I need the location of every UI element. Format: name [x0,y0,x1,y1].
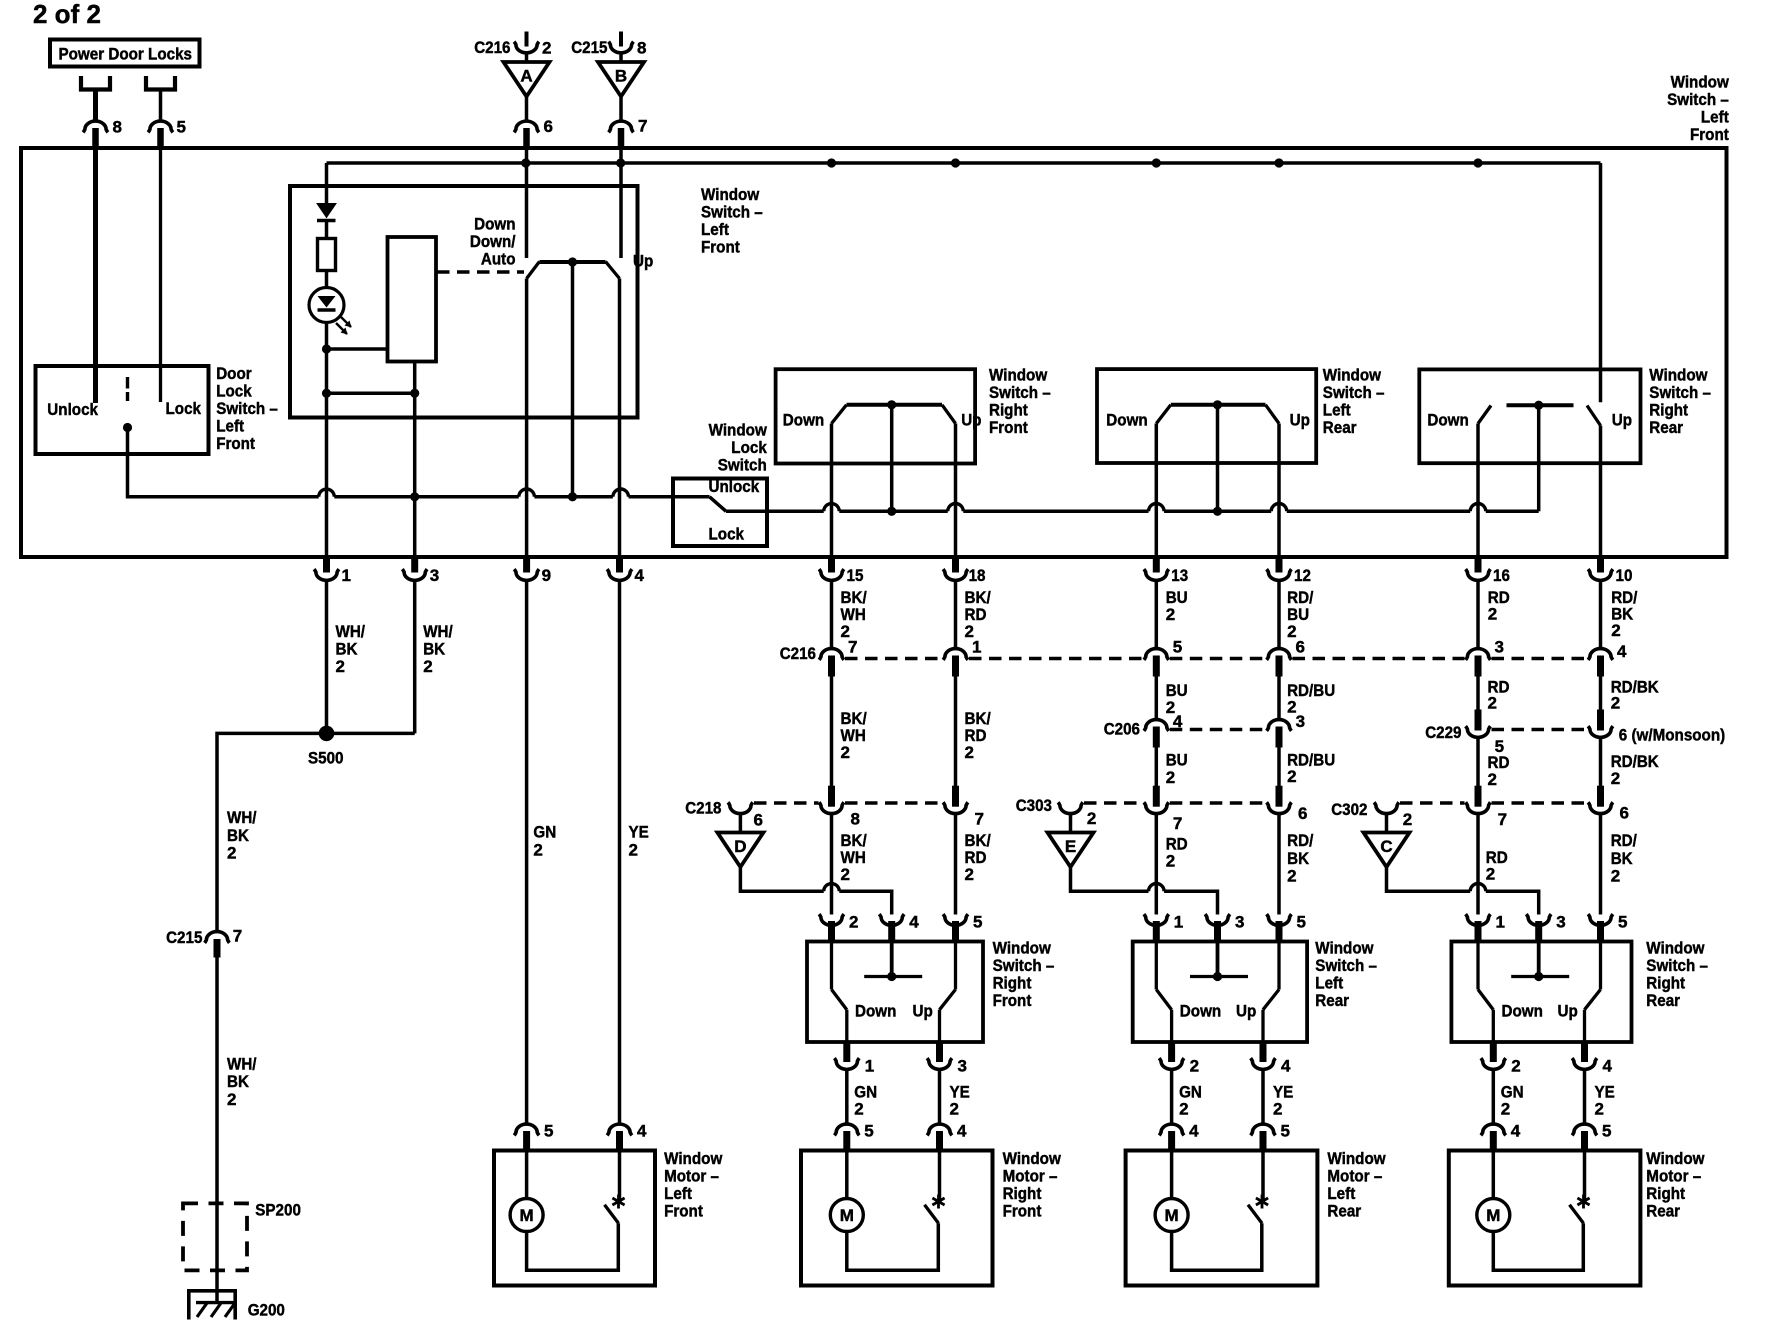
wire S500 to C215 [217,733,327,930]
wire motor feed left (window motor left front) [525,1152,529,1199]
svg-text:2: 2 [336,657,345,676]
dashed connector line C303 a [1084,801,1143,804]
wire motor feed right (window motor right rear) [1583,1152,1587,1200]
svg-text:Window: Window [1315,939,1374,958]
svg-text:Rear: Rear [1646,1202,1680,1221]
wire YE (right rear) [1583,1070,1587,1125]
wire C206-3 to C303-6 [1277,748,1281,787]
connector C216 pin 1 [943,638,981,677]
svg-text:2: 2 [1166,852,1175,871]
wire C218-6 to triangle D [739,814,743,833]
svg-text:C206: C206 [1104,720,1140,739]
wire label RD/BK 2 (RR c) [1611,752,1660,788]
svg-text:Down: Down [1427,410,1468,429]
ground G200 [189,1291,235,1320]
wire RF center tap to lock bus [890,405,894,512]
svg-text:2: 2 [1087,809,1096,828]
junction bridge center (RF) [887,400,896,409]
wire pin 10 to C216-4 [1599,581,1603,649]
dashed connector line C303 b [1170,801,1266,804]
crossover hump at left rear Down [1149,503,1165,511]
pin 16 connector (right rear) [1466,556,1510,585]
svg-text:6: 6 [1296,638,1305,657]
motor M (window motor right rear) [1477,1199,1510,1232]
svg-text:2: 2 [841,865,850,884]
wire C216-5 to C206-4 [1155,677,1159,722]
wire label RD/BK 2 (RR a) [1611,588,1637,640]
window switch right front (lower) pin 2 connector [819,913,858,943]
label window motor right front [1003,1149,1062,1221]
wire LR Up output to pin 12 [1277,424,1281,558]
wire C218-8 to RF switch pin 2 [830,814,834,915]
svg-text:Window: Window [1671,73,1730,92]
wire C229-5 to C302-7 [1476,738,1480,787]
right front switch contacts [832,405,956,424]
dashed control line Down/Auto [437,270,524,273]
junction bus / left rear center tap [1213,507,1222,516]
pin 13 connector (left rear) [1144,556,1188,585]
svg-text:Front: Front [664,1202,703,1221]
window motor left front box [494,1151,655,1286]
svg-text:BK: BK [227,1072,250,1091]
door lock switch blade [126,377,129,401]
wire RR Down output to pin 16 [1476,424,1480,558]
junction lock bus / center tap [568,492,577,501]
svg-text:2: 2 [1611,769,1620,788]
svg-text:2: 2 [1611,694,1620,713]
svg-text:1: 1 [342,566,351,585]
wire triangle B to pin 7 [619,97,623,122]
junction feed bus / pin6 wire [521,158,530,167]
svg-text:2: 2 [1511,1057,1520,1076]
connector C302 pin 6 [1588,786,1629,823]
svg-text:2 of 2: 2 of 2 [33,0,101,29]
svg-text:WH/: WH/ [336,622,366,641]
wire label WH/BK 2 (pin 3) [423,622,453,676]
pin 12 connector (left rear) [1267,556,1311,585]
wire motor return (window motor right front) [847,1223,939,1270]
wire junction to junction 2 [325,349,329,393]
junction bus / right front center tap [887,507,896,516]
label window switch right front (lower) [993,939,1055,1011]
svg-text:4: 4 [1511,1122,1521,1141]
wire junction to module [327,347,388,351]
dashed connector line C218 a [754,801,819,804]
svg-text:15: 15 [847,566,864,585]
svg-text:6: 6 [1620,803,1629,822]
wire label RD 2 (RR a) [1488,588,1510,624]
label Window Switch Right Rear (upper) [1649,366,1711,438]
wire left front Up output to pin 4 [618,279,622,558]
wire label BK/RD 2 (RF a) [965,588,991,641]
window switch left rear (lower) pin 4 connector [1251,1042,1291,1076]
window lock switch box [673,479,767,547]
svg-text:M: M [520,1206,534,1225]
wire C215 to G200 [215,958,219,1303]
electronic module box (express-down) [388,237,437,362]
connector C303 (door jamb) [1016,796,1097,828]
connector C229 pin 5 [1466,710,1504,757]
wire label GN 2 (right rear) [1501,1083,1524,1119]
wire C303-2 to triangle E [1069,814,1073,833]
junction LED / module [322,344,331,353]
wire LR center tap to lock bus [1216,405,1220,512]
wire triangle A to pin 6 [525,97,529,122]
wire door lock common d [629,495,710,499]
wire label BU 2 (LR a) [1166,588,1188,624]
svg-text:Down: Down [783,410,824,429]
wire C302-7 to RR switch pin 1 [1476,814,1480,915]
diode (illumination feed) [317,204,336,221]
svg-text:Up: Up [633,252,653,271]
wire LR Down output to pin 13 [1155,424,1159,558]
wire motor return (window motor left front) [527,1223,619,1270]
svg-text:2: 2 [1287,622,1296,641]
motor pin 4 connector (right front) [927,1122,967,1152]
wire LED to junction [325,323,329,350]
pin 9 connector (left front) [514,556,551,585]
svg-text:Window: Window [1323,366,1382,385]
crossover hump C line over RR Down [1470,883,1486,891]
wire pin 12 to C216-6 [1277,581,1281,649]
window switch left rear (lower) box [1133,942,1307,1043]
svg-text:G200: G200 [248,1301,285,1320]
svg-text:8: 8 [637,39,646,58]
svg-text:2: 2 [1488,605,1497,624]
svg-text:Front: Front [989,418,1028,437]
svg-text:Switch –: Switch – [993,956,1055,975]
svg-text:2: 2 [1166,768,1175,787]
svg-text:BK: BK [336,640,359,659]
svg-text:3: 3 [1495,638,1504,657]
svg-text:Window: Window [1646,1149,1705,1168]
svg-text:C229: C229 [1425,723,1461,742]
svg-text:BU: BU [1166,751,1188,770]
svg-text:2: 2 [841,743,850,762]
svg-text:18: 18 [969,566,986,585]
motor pin 5 connector (right rear) [1572,1122,1611,1152]
svg-text:2: 2 [1486,865,1495,884]
Power Door Locks box [50,40,200,67]
wire left front Down output to pin 9 [525,279,529,558]
wire label RD/BU 2 (LR b) [1287,681,1335,716]
window switch right front (lower) contacts [832,943,956,1043]
label Window Switch Left Front (outer) [1667,73,1729,145]
connector C215 pin 8 (top) [571,32,646,58]
svg-text:Right: Right [1003,1184,1042,1203]
window switch right front (lower) pin 5 connector [943,913,982,943]
junction feed bus / left rear Up [1274,158,1283,167]
svg-text:3: 3 [1296,712,1305,731]
LED indicator [309,288,352,335]
crossover hump at right front Up [948,503,964,511]
svg-text:Front: Front [216,434,255,453]
svg-text:RD/: RD/ [1287,831,1313,850]
pin 4 connector (left front) [607,556,644,585]
svg-text:2: 2 [1273,1100,1282,1119]
svg-text:Left: Left [1315,974,1343,993]
svg-text:4: 4 [635,566,645,585]
svg-text:2: 2 [227,1090,236,1109]
wire label YE 2 (right rear) [1595,1083,1615,1119]
svg-text:Up: Up [961,410,981,429]
wire motor return (window motor right rear) [1493,1223,1583,1270]
svg-text:3: 3 [1556,913,1565,932]
wire C216-1 to C218-7 [954,677,958,787]
svg-text:2: 2 [1611,621,1620,640]
svg-text:GN: GN [533,823,556,842]
svg-text:Down/: Down/ [470,232,516,251]
label Window Lock Switch [709,421,768,475]
pin 3 connector (left front) [402,556,439,585]
svg-text:Front: Front [701,238,740,257]
junction module return [410,389,419,398]
wire window lock bus 5 [1287,510,1470,514]
svg-text:2: 2 [1287,866,1296,885]
svg-text:Down: Down [474,215,515,234]
label window motor left rear [1327,1149,1386,1221]
svg-text:B: B [615,67,627,86]
svg-text:Left: Left [216,417,244,436]
wire label BK/WH 2 (RF c) [841,831,867,884]
connector C218 (door jamb) [685,799,763,830]
svg-text:2: 2 [1190,1057,1199,1076]
connector C216 pin 3 [1466,638,1504,677]
svg-text:7: 7 [233,927,242,946]
motor pin 5 connector (left rear) [1251,1122,1290,1152]
svg-text:2: 2 [854,1100,863,1119]
svg-text:Down: Down [1180,1002,1221,1021]
svg-text:5: 5 [1618,913,1627,932]
crossover hump at right rear Down [1470,503,1486,511]
svg-text:Window: Window [1003,1149,1062,1168]
wire motor feed left (window motor left rear) [1170,1152,1174,1199]
svg-text:2: 2 [1611,866,1620,885]
window motor left rear box [1126,1151,1318,1286]
svg-text:E: E [1065,837,1076,856]
svg-text:2: 2 [533,841,542,860]
wire RR Up output to pin 10 [1599,426,1603,558]
svg-text:C: C [1380,837,1392,856]
svg-text:5: 5 [864,1122,873,1141]
junction lock bus / pin 3 wire [410,492,419,501]
connector C216 pin 5 [1144,638,1182,677]
wire label WH/BK 2 (to ground) [227,1055,257,1109]
svg-text:Right: Right [1646,974,1685,993]
wire YE (right front) [938,1070,942,1125]
wire door lock common to window lock switch a [128,428,319,497]
wire window lock bus 6 [1486,510,1539,514]
svg-text:Door: Door [216,364,252,383]
svg-text:4: 4 [1281,1057,1291,1076]
svg-text:2: 2 [423,657,432,676]
off-page triangle A [504,62,550,97]
window motor right front box [801,1151,993,1286]
wire label BU 2 (LR c) [1166,751,1188,787]
connector C218 pin 8 [819,786,860,829]
svg-text:Window: Window [701,185,760,204]
window switch right rear (lower) pin 2 connector [1481,1042,1521,1076]
wire feed bus [327,161,1601,165]
left rear switch contacts [1156,405,1279,424]
svg-text:Up: Up [913,1002,933,1021]
crossover hump at right front Down [824,504,840,512]
wire label RD/BK 2 (RR d) [1611,831,1637,885]
wire label WH/BK 2 (pin 1) [336,622,366,676]
wire door lock common b [334,495,519,499]
dashed connector line C302 b [1492,801,1588,804]
svg-text:1: 1 [865,1057,874,1076]
left front window switch contacts [527,262,620,279]
svg-text:2: 2 [965,622,974,641]
svg-text:Down: Down [1502,1002,1543,1021]
pin 18 connector (right front) [943,556,985,585]
window switch right front (lower) pin 4 connector [879,913,919,943]
wire C229-6 to C302-6 [1599,738,1603,787]
wire pin 13 to C216-5 [1155,581,1159,649]
motor M (window motor left front) [510,1199,543,1232]
circuit breaker contact (window motor left rear) [1248,1205,1262,1224]
window switch left rear (upper) box [1097,369,1316,463]
svg-text:2: 2 [227,843,236,862]
window switch right rear (lower) pin 4 connector [1572,1042,1612,1076]
breaker asterisk (window motor left rear) [1256,1195,1268,1209]
wire RF Up output to pin 18 [954,424,958,558]
window switch left rear (lower) pin 1 connector [1144,913,1183,943]
svg-text:Switch –: Switch – [701,203,763,222]
svg-text:C218: C218 [685,799,721,818]
svg-text:5: 5 [973,913,982,932]
svg-text:Unlock: Unlock [709,477,760,496]
svg-text:YE: YE [629,823,649,842]
svg-text:13: 13 [1171,566,1188,585]
connector fork left (Power Door Locks) [81,76,110,121]
svg-text:2: 2 [1403,810,1412,829]
svg-text:Lock: Lock [731,438,767,457]
wire window lock bus 2 [839,510,947,514]
wire to pin 1 [325,393,329,557]
svg-text:5: 5 [177,118,186,137]
wire window lock bus 3 [963,510,1148,514]
svg-text:WH/: WH/ [227,808,257,827]
svg-text:8: 8 [113,118,122,137]
svg-text:Rear: Rear [1646,991,1680,1010]
svg-text:D: D [734,837,746,856]
svg-text:4: 4 [1617,642,1627,661]
svg-text:Left: Left [664,1184,692,1203]
pin 5 connector [148,118,186,149]
wire label GN 2 (left front) [533,823,556,860]
connector C216 pin 6 [1267,638,1305,677]
wire motor feed right (window motor right front) [938,1152,942,1200]
svg-text:Switch: Switch [718,456,767,475]
off-page triangle C [1364,833,1410,868]
svg-text:Switch –: Switch – [1649,383,1711,402]
svg-text:C215: C215 [166,928,202,947]
wire motor feed left (window motor right front) [845,1152,849,1199]
wire motor feed right (window motor left rear) [1261,1152,1265,1200]
svg-text:Rear: Rear [1323,418,1357,437]
off-page triangle B [598,62,644,97]
label Window Switch Right Front (upper) [989,366,1051,438]
window switch right front (lower) box [807,942,983,1043]
label Down Down/Auto [470,215,516,269]
outer box Window Switch Left Front [21,148,1727,557]
svg-text:4: 4 [1173,712,1183,731]
wire feed bus drop right rear Up [1599,163,1603,402]
dashed connector line C216 a [845,657,942,660]
connector C216 pin 2 (top) [474,32,551,58]
wire label RD/BK 2 (RR b) [1611,678,1660,713]
circuit breaker contact (window motor right front) [925,1205,939,1224]
left front switch detail box [290,186,638,418]
svg-text:1: 1 [1174,913,1183,932]
svg-text:2: 2 [841,622,850,641]
svg-text:8: 8 [851,810,860,829]
svg-text:A: A [520,67,532,86]
svg-text:SP200: SP200 [255,1201,301,1220]
pin 8 connector (door lock switch feed) [83,118,122,149]
svg-text:Rear: Rear [1327,1202,1361,1221]
svg-text:2: 2 [950,1100,959,1119]
connector C206 pin 3 [1267,712,1305,747]
svg-text:WH/: WH/ [423,622,453,641]
wire center tap to window lock bus [571,262,575,497]
connector C216 pin 4 [1588,642,1627,676]
svg-text:10: 10 [1616,566,1633,585]
right rear switch contacts [1478,405,1601,425]
svg-text:Rear: Rear [1649,418,1683,437]
svg-text:Rear: Rear [1315,991,1349,1010]
svg-text:3: 3 [958,1057,967,1076]
wire C216-2 to triangle A [525,53,529,62]
svg-text:Left: Left [1323,401,1351,420]
svg-text:C216: C216 [474,38,510,57]
svg-text:3: 3 [430,566,439,585]
junction common (window switch left rear (lower)) [1213,972,1222,981]
motor pin 5 connector (left front) [514,1122,553,1152]
wire pin 15 to C216-7 [830,581,834,649]
svg-text:Switch –: Switch – [1315,956,1377,975]
connector fork right (Power Door Locks) [146,76,175,121]
svg-text:Auto: Auto [481,250,516,269]
svg-text:Up: Up [1236,1002,1256,1021]
svg-text:2: 2 [1166,605,1175,624]
svg-text:4: 4 [1603,1057,1613,1076]
wire label GN 2 (right front) [854,1083,877,1119]
svg-text:Lock: Lock [166,399,202,418]
crossover hump at pin1 wire [319,489,335,497]
wire splice horizontal [327,732,415,736]
label Window Switch Left Front (detail) [701,185,763,257]
svg-text:4: 4 [957,1122,967,1141]
svg-text:S500: S500 [308,749,344,768]
off-page triangle D [717,833,763,868]
wire resistor to LED [325,271,329,288]
label Door Lock Switch Left Front [216,364,278,453]
svg-text:Left: Left [1701,108,1729,127]
svg-text:Switch –: Switch – [216,399,278,418]
dashed connector line C216 b [969,657,1143,660]
window switch left rear (lower) pin 3 connector [1205,913,1244,943]
connector C215 pin 7 (in-line) [166,927,242,958]
wire C303-6 to LR switch pin 5 [1277,814,1281,915]
splice S500 [319,726,335,742]
svg-text:4: 4 [1189,1122,1199,1141]
wire label YE 2 (left front) [629,823,649,860]
wire pin 5 to Lock contact [159,149,162,402]
svg-text:Motor –: Motor – [664,1167,719,1186]
